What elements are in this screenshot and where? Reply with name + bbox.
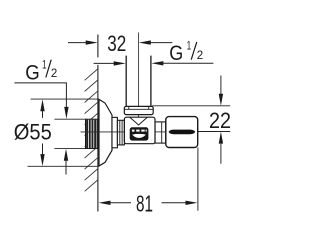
union ring	[117, 120, 124, 145]
inlet thread extension lines	[54, 119, 85, 148]
dimension 81 bottom	[99, 148, 198, 211]
svg-text:Ø55: Ø55	[14, 120, 52, 145]
text G 1/2 top right	[169, 39, 203, 65]
svg-text:81: 81	[136, 191, 153, 217]
outlet union nut	[124, 106, 153, 114]
dimension 32 top	[68, 40, 172, 44]
axis centerline	[81, 131, 166, 133]
G 1/2 left leader: underline, corner, down arrow	[14, 83, 68, 175]
svg-text:2: 2	[51, 66, 58, 80]
svg-text:G: G	[25, 61, 40, 84]
svg-text:1: 1	[42, 57, 47, 71]
svg-text:1: 1	[187, 39, 192, 53]
bonnet	[155, 122, 166, 143]
wall hatching	[85, 69, 99, 192]
valve body	[124, 117, 155, 144]
inlet nipple thread into wall	[86, 119, 99, 148]
flange neck ring	[112, 117, 117, 147]
svg-text:2: 2	[197, 48, 204, 62]
wall flange escutcheon	[99, 99, 112, 165]
wall line	[97, 35, 99, 212]
svg-text:G: G	[169, 42, 183, 65]
outlet pipe	[126, 56, 151, 107]
svg-text:32: 32	[107, 31, 126, 56]
logo plate on body	[130, 127, 149, 140]
pipe centerline	[138, 32, 140, 124]
text G 1/2 left	[25, 57, 57, 84]
handle	[166, 117, 198, 148]
G 1/2 top leader arrows	[94, 61, 214, 66]
diameter 55 dimension arrows	[40, 99, 44, 166]
handle grip slot	[169, 130, 196, 135]
dimension 22 right	[152, 76, 230, 164]
svg-text:22: 22	[209, 108, 231, 133]
outlet seat V-notch	[130, 117, 147, 125]
diameter 55 extension lines	[28, 99, 99, 166]
